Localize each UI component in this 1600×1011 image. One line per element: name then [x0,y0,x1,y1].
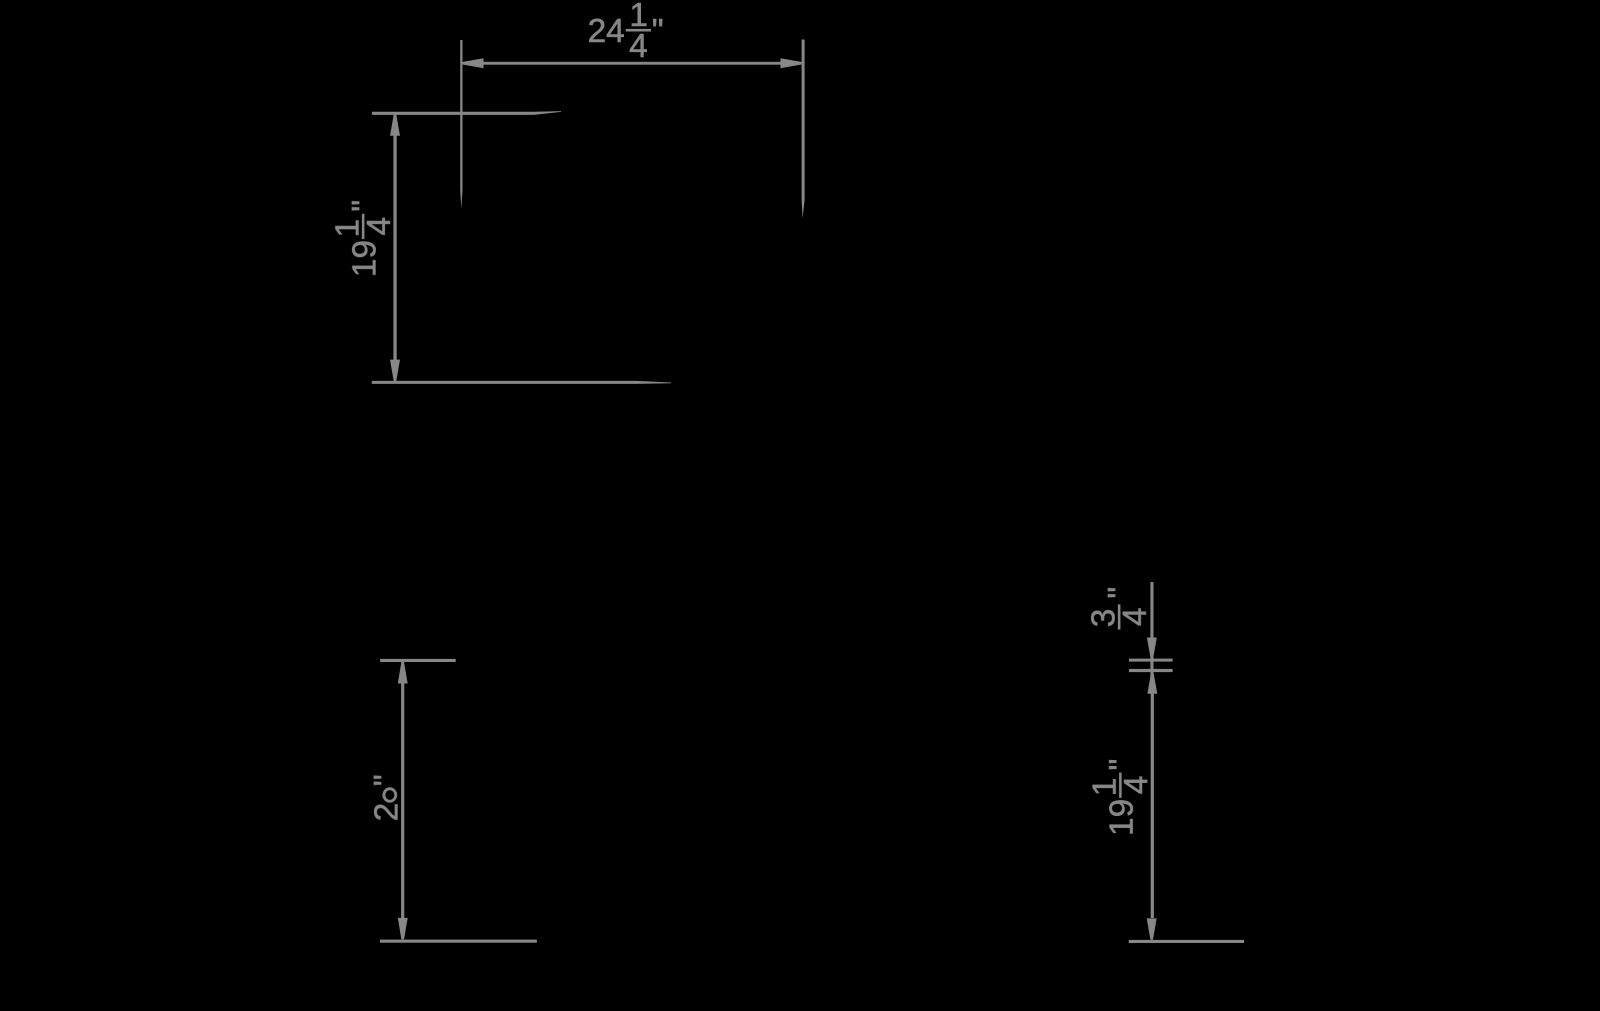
svg-text:": " [1102,587,1139,599]
dimension line 19 1/4 vertical right [1151,694,1154,919]
svg-text:4: 4 [629,28,648,65]
svg-text:19: 19 [1104,799,1141,836]
extension line top (front view height dim) [372,111,561,115]
svg-text:": " [346,200,383,212]
label 24 1/4 inch [588,0,664,65]
svg-text:19: 19 [346,240,383,277]
arrowhead up of left 19 1/4 dim [390,115,400,136]
svg-text:": " [652,13,664,50]
label 20 inch rotated [368,774,405,821]
svg-text:24: 24 [588,13,625,50]
svg-text:4: 4 [361,217,398,236]
arrowhead down of right 19 1/4 dim [1147,918,1157,939]
extension line top (side view 20in dim) [380,659,456,662]
extension line bottom (front view height dim) [372,381,671,384]
extension line left (front view width dim) [460,40,462,209]
leader line above 3/4 dim right (continuous through gap) [1150,582,1153,694]
dimension line 24 1/4 horizontal [483,62,781,65]
arrowhead down of 20 dim [398,918,408,940]
svg-text:2: 2 [368,803,405,822]
arrowhead up of right 19 1/4 dim [1147,673,1157,694]
dimension line 19 1/4 vertical left [393,135,396,361]
svg-text:": " [1103,759,1140,771]
label 19 1/4 inch rotated right [1087,759,1155,836]
top surface line A (3/4 dim) [1129,659,1173,662]
label 19 1/4 inch rotated left [330,200,398,277]
label 3/4 inch rotated [1086,587,1154,630]
arrowhead up of 20 dim [398,662,408,684]
svg-text:4: 4 [1118,776,1155,795]
arrowhead right of 24 1/4 dim [781,58,802,68]
top surface line B (3/4 dim) [1129,669,1173,672]
extension line right (front view width dim) [802,40,805,219]
svg-text:": " [368,774,405,786]
dimension line 20 vertical [401,683,404,918]
arrowhead down onto top surface line [1147,638,1157,659]
svg-text:4: 4 [1117,608,1154,627]
arrowhead down of left 19 1/4 dim [390,360,400,381]
arrowhead left of 24 1/4 dim [463,58,484,68]
extension line bottom right (19 1/4 dim) [1129,940,1244,943]
extension line bottom (side view 20in dim) [380,940,537,943]
